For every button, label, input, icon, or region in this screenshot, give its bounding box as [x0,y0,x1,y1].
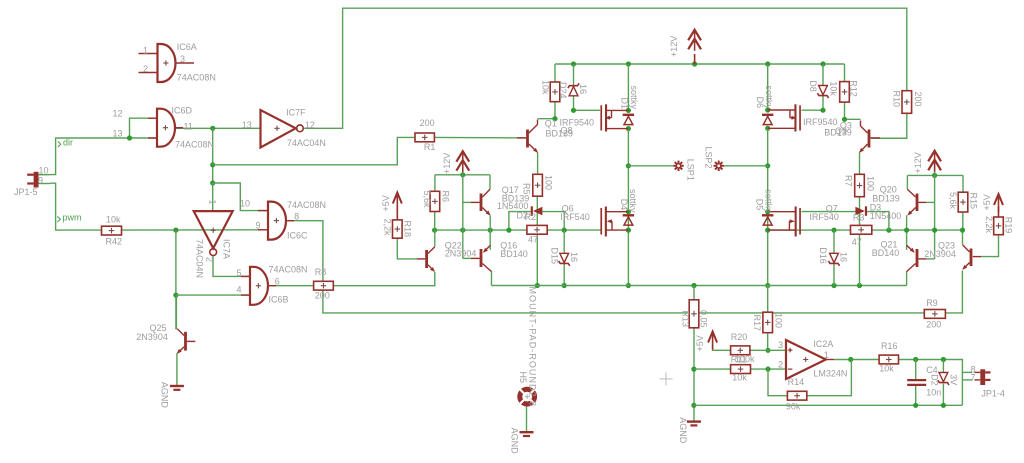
node left gate line junction D15 [562,228,567,233]
transistor Q25 2N3904 [136,323,195,355]
node right output gate-line junction [765,228,770,233]
resistor R13 0.05 [680,300,708,328]
svg-text:16: 16 [569,252,579,262]
svg-text:74AC04N: 74AC04N [287,138,326,148]
wire +12V left branch [435,174,490,176]
node right output Q7 drain junction [765,209,770,214]
zener diode D8 16V [808,80,829,98]
svg-text:3V: 3V [949,374,959,385]
svg-text:D6: D6 [755,97,765,109]
wire +12V rail [555,63,845,65]
svg-text:R11: R11 [731,355,747,365]
power +12V top [669,30,701,64]
node IC6D output junction [210,126,215,131]
wire top net from IC7F output to R10 [304,8,907,128]
svg-text:R19: R19 [1004,217,1014,234]
node R5 vertical low rail junction [535,283,540,288]
node R13-R11 junction [691,367,696,372]
sheet origin cross [660,372,673,385]
transistor Q16 BD140 [471,241,528,272]
svg-text:D24: D24 [558,82,568,99]
node D24-gate junction [571,108,576,113]
wire to LSP2 [724,165,768,167]
wire D16 upper [833,230,835,253]
transistor Q3 BD139 [803,117,907,154]
wire Q20 base stub [926,201,935,203]
resistor R8 200 [314,267,334,301]
node +12V left junction [460,172,465,177]
resistor R20 100k [731,332,755,364]
wire R11 left [694,368,731,370]
svg-text:R17: R17 [752,315,762,332]
wire IC6D pin12 branch [130,118,158,138]
wire rail to R12 [844,64,846,82]
node left output gate-line junction [626,228,631,233]
wire Q21 base stub [926,258,935,260]
svg-text:4: 4 [237,285,242,295]
svg-text:D15: D15 [550,248,560,265]
wire D8 lower to Q2 gate [802,96,824,110]
node left gate line junction D2 [506,228,511,233]
wire R5 bottom to low rail [536,196,538,285]
svg-text:100: 100 [544,175,554,190]
wire JP1-4 pin7 stub [962,379,972,381]
node rail junction D24 [571,61,576,66]
wire R13 bottom to AGND [693,328,695,421]
wire D2 bypass left leg [509,212,531,231]
wire Q20 collector leg [906,175,908,189]
svg-text:R10: R10 [891,91,901,108]
wire IC7A output to IC6B pin5 [213,256,250,277]
node low rail junction R7 leg [857,283,862,288]
wire pwm R42 to IC6C pin9 [122,229,269,231]
wire IC7A pin1 [212,183,214,211]
resistor R15 5.6k [948,192,979,212]
and-gate IC6B [237,265,308,305]
transistor Q17 BD139 [471,185,529,217]
power +12V right [913,151,941,174]
svg-text:IC2A: IC2A [813,339,833,349]
p-mosfet Q2 IRF9540 [768,104,801,131]
transistor Q8 BD139 [517,118,594,155]
svg-text:6: 6 [275,277,280,287]
svg-text:pwm: pwm [63,213,82,223]
and-gate IC6A [139,42,216,82]
ground AGND at H5 [509,428,533,455]
schottky diode D5 [755,189,774,225]
svg-text:1N5400: 1N5400 [497,201,529,211]
svg-text:AGND: AGND [160,382,170,409]
wire D15 lower [563,264,565,286]
ground AGND at Q25 [160,382,184,409]
svg-text:200: 200 [420,118,435,128]
svg-text:IC7F: IC7F [286,108,306,118]
svg-text:5: 5 [237,268,242,278]
wire C4 top stem [915,360,917,380]
wire Q17 collector leg [489,175,491,190]
wire R18 bottom to Q22 base [397,238,417,259]
svg-text:+5V: +5V [695,335,705,351]
schottky diode D4 [619,189,638,225]
node R4 bottom junction [552,116,557,121]
node rail junction +12V arrow [692,61,697,66]
svg-text:9: 9 [38,176,43,186]
node low rail junction D16 [831,283,836,288]
power +5V left [381,193,402,220]
node junction at y165 [210,162,215,167]
node left gate line junction R6 [432,228,437,233]
svg-text:IC6D: IC6D [172,106,193,116]
connector JP1-4 [971,365,1005,399]
wire pwm net JP1-5 pin9 to R42 [50,183,102,230]
resistor R1 200 [415,118,435,152]
wire right half-bridge vertical upper [767,64,769,110]
power +5V right [982,194,1003,217]
svg-text:D4: D4 [619,199,629,211]
svg-text:IRF540: IRF540 [809,212,839,222]
svg-text:47: 47 [528,235,538,245]
mount pad H5 [518,287,537,408]
wire left half-bridge vertical upper [627,64,629,110]
wire Q16 base stub [463,257,471,259]
wire +12V right stem [934,164,936,175]
svg-text:IRF540: IRF540 [560,212,590,222]
wire R1 to Q8 base [434,136,526,139]
wire Q8 emitter to R5 [537,153,539,175]
svg-text:12: 12 [113,109,123,119]
svg-text:IC6A: IC6A [177,42,197,52]
node junction pwm-Q25 branch [173,293,178,298]
svg-text:200: 200 [926,319,941,329]
wire R11 right to pin2 [751,368,787,370]
svg-text:5,6k: 5,6k [948,192,958,210]
wire pin3 into opamp [768,349,786,351]
wire Q22 collector leg [434,230,436,247]
svg-text:R16: R16 [881,341,898,351]
node right gate line junction emitters [904,228,909,233]
svg-text:5,6k: 5,6k [422,191,432,209]
wire R7 bottom to low rail [859,197,861,286]
svg-text:2: 2 [778,359,783,369]
node pin2 junction [765,367,770,372]
wire zener D2 top stem [942,360,944,373]
svg-text:7: 7 [971,373,976,383]
svg-text:R1: R1 [424,142,436,152]
svg-text:10k: 10k [732,373,747,383]
wire D15 upper [563,230,565,253]
svg-text:10: 10 [240,199,250,209]
svg-text:R9: R9 [926,298,938,308]
svg-text:1N5400: 1N5400 [870,211,902,221]
svg-text:200: 200 [913,92,923,107]
node left output LSP junction [626,163,631,168]
svg-text:R13: R13 [680,311,690,328]
diode D3 1N5400 [853,203,901,223]
svg-text:R2: R2 [525,212,537,222]
node output zener junction [941,357,946,362]
wire D24 lower to Q1 gate [574,96,601,110]
svg-text:2,2k: 2,2k [383,219,393,237]
svg-text:10k: 10k [106,215,121,225]
svg-text:D5: D5 [755,199,765,211]
svg-text:16: 16 [838,252,848,262]
wire feedback to R14 [768,369,787,396]
svg-text:2: 2 [205,257,215,262]
svg-text:74AC08N: 74AC08N [177,73,216,83]
resistor R11 10k [731,365,751,383]
svg-text:JP1-5: JP1-5 [14,187,38,197]
op-amp IC2A LM324N [778,339,847,379]
svg-text:sottky: sottky [629,86,639,110]
wire Q17 base stub [463,201,471,203]
wire Q25 collector leg [175,295,177,329]
svg-text:10k: 10k [828,81,838,96]
transistor Q23 2N3904 [924,241,981,272]
wire IC6C output down through R8 and long wire to R9 [287,221,925,313]
wire R15 top leg [962,175,964,192]
wire to LSP1 [628,165,673,167]
svg-text:sottky: sottky [764,189,774,213]
node pin3 junction [765,348,770,353]
wire Q16 collector leg [491,271,493,285]
svg-text:D2: D2 [930,374,940,386]
svg-text:R18: R18 [402,221,412,238]
wire R16 to JP1-4 [899,360,963,406]
node junction at y183 [210,180,215,185]
svg-text:8: 8 [294,212,299,222]
wire C4 bottom stem [915,386,917,406]
zener diode D16 16V [818,247,848,266]
wire to IC6B pin4 [176,294,250,296]
svg-text:R8: R8 [315,267,327,277]
svg-text:IC6B: IC6B [269,295,289,305]
svg-text:13: 13 [242,120,252,130]
node right output low rail junction [765,283,770,288]
wire Q23 collector leg [962,230,964,244]
svg-text:10k: 10k [541,80,551,95]
wire R6 bottom leg [434,212,436,231]
wire D2 bypass right leg [543,212,565,231]
wire R14 to output [807,360,852,396]
svg-text:+12V: +12V [913,152,923,173]
power +5V bottom [695,332,717,352]
svg-text:R5: R5 [521,183,531,195]
svg-text:sottky: sottky [628,189,638,213]
svg-text:0,05: 0,05 [699,310,709,328]
resistor R19 2.2k [984,216,1013,235]
wire Q25 emitter to AGND [176,353,178,385]
wire R9 to Q23 emitter [945,271,962,313]
resistor R4 10k [541,80,569,102]
inverter IC7F [242,108,326,149]
svg-text:LSP2: LSP2 [704,147,714,169]
wire H5 pad to AGND [526,405,528,432]
svg-text:R6: R6 [441,191,451,203]
node right output LSP junction [765,163,770,168]
svg-text:sottky: sottky [764,86,774,110]
svg-text:BD139: BD139 [546,129,574,139]
p-mosfet Q1 IRF9540 [600,104,628,131]
svg-text:AGND: AGND [678,417,688,444]
svg-text:R20: R20 [731,332,748,342]
node right gate line junction bases [932,228,937,233]
node output-R14 junction [848,357,853,362]
schottky diode D6 [755,86,774,125]
resistor R10 200 [891,91,923,114]
svg-text:MOUNT-PAD-ROUND2.8: MOUNT-PAD-ROUND2.8 [527,287,537,408]
wire R12 bottom to Q3 collector [845,102,861,119]
svg-text:+12V: +12V [669,36,679,57]
svg-text:R15: R15 [969,193,979,210]
wire Q20 Q21 emitters vertical [906,215,908,250]
node R12 bottom junction [842,117,847,122]
node C4 ground junction [913,403,918,408]
wire pwm down to Q25 and IC6B pin4 [175,230,177,329]
node left gate line junction emitters [488,228,493,233]
node ground wire junction [691,403,696,408]
wire left gate line [435,229,601,231]
transistor Q20 BD139 [872,185,926,217]
wire IC6D output to IC7F input [175,127,260,129]
svg-text:3: 3 [180,54,185,64]
node D15 low rail junction [562,283,567,288]
svg-text:2: 2 [143,64,148,74]
capacitor C4 10n [907,365,941,398]
wire R20 right [750,349,768,351]
svg-text:R42: R42 [106,237,123,247]
resistor R9 200 [924,298,945,329]
wire D8 upper [822,64,824,85]
svg-text:9: 9 [256,221,261,231]
zener diode D15 16V [550,248,580,266]
svg-text:+12V: +12V [442,153,452,174]
transistor Q21 BD140 [872,240,926,272]
svg-text:H5: H5 [518,372,528,384]
svg-text:IC6C: IC6C [287,231,308,241]
wire Q3 emitter to R7 [859,153,861,175]
node low rail junction R13 [691,283,696,288]
wire R19 bottom to Q23 base [981,235,999,257]
svg-text:200: 200 [315,291,330,301]
node output C4 junction [913,357,918,362]
wire left output vertical [627,129,629,286]
svg-text:2N3904: 2N3904 [136,332,168,342]
wire R8 to Q22 emitter [333,272,435,286]
wire to R1 via y165 [213,137,415,164]
wire opamp output net [834,359,879,361]
resistor R5 100 [521,174,553,196]
svg-text:100: 100 [866,176,876,191]
wire dir net JP1-5 pin10 to IC6D pin13 [50,138,157,175]
wire rail to R4 [554,64,556,82]
diode D2 1N5400 [517,206,543,222]
node right gate line junction D16 [831,228,836,233]
svg-text:74AC08N: 74AC08N [175,140,214,150]
wire right gate line [768,229,963,231]
svg-text:10k: 10k [879,363,894,373]
svg-text:10n: 10n [926,388,941,398]
svg-text:2N3904: 2N3904 [445,249,477,259]
node rail junction D8 [820,61,825,66]
wire R17 bottom to pin3 node [767,333,769,351]
svg-text:+5V: +5V [381,195,391,211]
wire +12V right branch [907,174,963,176]
svg-text:R7: R7 [843,175,853,187]
wire +5V to R20 [713,345,731,350]
resistor R14 90k [786,377,807,411]
resistor R18 2.2k [383,219,413,239]
svg-text:BD140: BD140 [500,249,528,259]
svg-text:D8: D8 [808,80,818,92]
and-gate IC6D [113,106,215,150]
svg-text:AGND: AGND [509,428,519,455]
wire R13 top leg [693,286,695,300]
schottky diode D1 [620,86,639,125]
wire R6 top leg [434,175,436,192]
svg-text:Q1: Q1 [545,119,557,129]
ground AGND center [678,417,701,444]
wire D3 to gate line [867,212,889,231]
wire zener D2 bottom stem [942,384,944,406]
node right gate line junction R15 [960,228,965,233]
wire low rail [492,285,907,287]
svg-text:D1: D1 [620,98,630,110]
wire +12V left stem [462,163,464,175]
svg-text:1: 1 [824,350,829,360]
net label dir [58,138,73,148]
and-gate IC6C [240,199,326,241]
wire D24 upper [573,64,575,86]
svg-text:10: 10 [39,166,49,176]
svg-text:D16: D16 [818,247,828,264]
svg-text:2,2k: 2,2k [984,216,994,234]
wire R17 from low rail [767,286,769,313]
svg-text:74AC04N: 74AC04N [194,239,204,278]
wire dir branch to IC6C pin10 [213,183,268,211]
resistor R42 10k [102,215,123,247]
svg-text:74AC08N: 74AC08N [269,265,308,275]
svg-text:74AC08N: 74AC08N [287,200,326,210]
svg-text:BD139: BD139 [824,128,852,138]
inverter IC7A [194,200,233,279]
wire ground rail bottom [694,404,963,406]
terminal LSP2 [704,147,724,172]
node zener ground junction [941,403,946,408]
svg-text:13: 13 [113,128,123,138]
node left output Q6 drain junction [626,209,631,214]
n-mosfet Q6 IRF540 [560,203,628,236]
node rail junction Q1 leg [626,61,631,66]
resistor R2 47 [527,225,547,244]
resistor R6 5.6k [422,191,451,212]
svg-text:LSP1: LSP1 [685,159,695,181]
svg-text:dir: dir [63,138,73,148]
svg-text:16: 16 [578,84,588,94]
node Q2 drain junction [765,126,770,131]
wire JP1-4 pin8 stub [962,371,972,373]
wire D3 line from Q7 gate [802,211,856,213]
wire vertical from IC6D output down [212,128,214,183]
svg-text:+5V: +5V [982,194,992,210]
resistor R16 10k [879,341,898,373]
wire right output vertical [767,128,769,285]
svg-text:R3: R3 [853,213,865,223]
svg-text:47: 47 [852,237,862,247]
node pwm junction [173,228,178,233]
node left output low rail junction [626,283,631,288]
node rail junction Q2 leg [765,61,770,66]
terminal LSP1 [673,159,695,181]
